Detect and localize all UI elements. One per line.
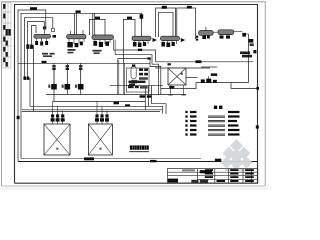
vessel A top right bbox=[199, 27, 214, 39]
left strip block m1 bbox=[6, 29, 8, 36]
legend row 1 bbox=[185, 111, 239, 113]
wire tower feed y106.3 bbox=[30, 105, 163, 107]
label on interchange c bbox=[147, 57, 150, 59]
wire long header y63 bbox=[18, 62, 150, 64]
title block right grid bars col1 bbox=[205, 169, 225, 182]
wire HX outlet right bbox=[186, 77, 198, 79]
wire train link B-valve bbox=[234, 31, 243, 33]
middle pump P2 bbox=[62, 65, 71, 89]
left strip block m2 bbox=[6, 41, 8, 46]
wire interchange c bbox=[118, 59, 161, 95]
wire pipe loop D bbox=[177, 8, 196, 39]
label on interchange a bbox=[138, 49, 142, 51]
valve on L3 end bbox=[51, 29, 54, 32]
wire pump riser x81 bbox=[80, 63, 82, 94]
legend table bbox=[185, 106, 239, 136]
labels on feed line y94.5 bbox=[140, 95, 146, 97]
text row softener bbox=[129, 81, 146, 86]
title block drawing name text bbox=[191, 180, 208, 183]
CT2 riser b bbox=[100, 106, 104, 124]
wire L1 steam header bbox=[18, 10, 46, 161]
wire interchange b bbox=[115, 55, 158, 95]
legend row 4 bbox=[185, 124, 238, 126]
left strip block r6 bbox=[3, 58, 5, 63]
fittings below pump F bbox=[250, 43, 254, 46]
wire blowdown bottom line bbox=[21, 158, 201, 160]
wire staircase S2 bbox=[148, 86, 150, 106]
left strip block r4 bbox=[3, 37, 5, 42]
legend row 6 bbox=[185, 133, 239, 135]
wire V3 drains bbox=[114, 40, 116, 55]
label on line x125 bbox=[125, 104, 130, 106]
wire pump riser x54 bbox=[53, 63, 55, 101]
valve mark on left riser bbox=[17, 116, 20, 119]
CT1 riser a bbox=[51, 101, 55, 124]
pump group left of V1 bbox=[26, 44, 29, 49]
wire line y85.7 bbox=[110, 85, 163, 87]
wire tower feed pair y111.4 bbox=[22, 110, 160, 112]
wire pipe loop C inner bbox=[159, 12, 174, 37]
wire V3 nozzle risers bbox=[93, 13, 95, 35]
skid internals bbox=[139, 69, 143, 72]
wire tower feed pair y109.8 bbox=[22, 109, 162, 111]
left strip block r5 bbox=[3, 47, 5, 52]
left strip block m4 bbox=[6, 62, 8, 67]
wire V2 nozzle risers bbox=[75, 13, 77, 34]
wire riser V1 left bbox=[33, 45, 35, 111]
CT2 riser a bbox=[95, 101, 99, 124]
pump F on drop bbox=[248, 39, 253, 43]
wire staircase S1 bbox=[144, 86, 146, 110]
vessel V3 bbox=[92, 35, 114, 47]
main pipework bbox=[18, 8, 258, 162]
small fittings x196 bbox=[196, 36, 198, 38]
title block caption bars bbox=[168, 170, 212, 182]
label on line x113 bbox=[114, 102, 120, 105]
text near V3 legs bbox=[93, 50, 102, 54]
wire right short y67 bbox=[201, 66, 217, 68]
outer border bbox=[2, 2, 266, 186]
wire interchange a bbox=[114, 50, 254, 62]
title block right grid bars col2 bbox=[230, 169, 238, 182]
inner drawing frame bbox=[15, 5, 258, 184]
misc small labels bbox=[30, 6, 256, 162]
text right column DN bbox=[240, 52, 252, 58]
cooling tower CT2 bbox=[88, 124, 112, 155]
vessel V5 bbox=[161, 36, 186, 47]
watermark logo bbox=[221, 139, 253, 171]
wire train link A-B bbox=[213, 31, 218, 33]
wire pipe loop C over V5 bbox=[156, 8, 176, 37]
frame centering mark right bbox=[256, 125, 259, 128]
title block right grid bars col3 bbox=[245, 169, 254, 182]
CT1 riser c bbox=[61, 111, 65, 124]
wire pump feed line y94.5 bbox=[46, 94, 186, 96]
cooling tower CT1 bbox=[44, 124, 70, 155]
wire right drop x248.5 bbox=[248, 34, 250, 83]
middle pump P1 bbox=[48, 65, 57, 89]
legend title bbox=[214, 106, 217, 109]
left strip block r3 bbox=[3, 25, 5, 30]
wire pipe loop mid bbox=[124, 19, 136, 63]
vessel V1 bbox=[34, 26, 51, 45]
wire pump riser x67 bbox=[66, 63, 68, 94]
wire right end stub bbox=[162, 106, 164, 113]
left strip block r2 bbox=[3, 14, 5, 19]
title block bbox=[167, 169, 257, 184]
vessel V4 bbox=[132, 36, 157, 47]
label on header y63 bbox=[42, 61, 47, 63]
salt tank T bbox=[131, 67, 136, 79]
tick where return meets frame bbox=[256, 87, 259, 90]
wire skid feed pipes bbox=[118, 59, 125, 95]
pump cluster right G bbox=[201, 73, 217, 83]
heat exchanger HX1 bbox=[168, 63, 187, 95]
text below V1 bbox=[42, 53, 55, 57]
legend row 3 bbox=[185, 120, 237, 122]
CT1 riser b bbox=[56, 106, 60, 124]
wire tower feed y101.4 bbox=[53, 100, 146, 102]
vessel V2 bbox=[67, 30, 86, 47]
wire L2 bbox=[21, 13, 142, 158]
wire L5 bbox=[32, 26, 37, 46]
pump blobs under HX1 bbox=[169, 86, 174, 89]
left strip block r1 bbox=[3, 4, 5, 9]
legend row 5 bbox=[185, 129, 239, 131]
bottom outer strip bbox=[0, 187, 268, 190]
wire right return step to frame bbox=[231, 83, 258, 89]
wire enclosure bottom line bbox=[18, 161, 258, 163]
wire HX top line bbox=[155, 67, 210, 69]
vessel B top right bbox=[218, 30, 234, 39]
CT2 riser c bbox=[105, 111, 109, 124]
left revision strip table bbox=[3, 2, 11, 68]
title block small gray text bbox=[182, 169, 195, 171]
left strip block m3 bbox=[6, 52, 8, 57]
wire left corner riser x30 bbox=[29, 78, 31, 106]
wire L3 bbox=[25, 18, 53, 77]
valve E right bbox=[242, 33, 246, 37]
legend row 2 bbox=[185, 115, 239, 117]
wire valve to drop bbox=[246, 33, 249, 35]
middle pump P3 bbox=[75, 65, 84, 89]
wire staircase S3 bbox=[152, 86, 166, 114]
valve blobs on L3 L4 ends bbox=[23, 77, 26, 80]
water treatment skid box bbox=[126, 64, 149, 92]
caption near towers bbox=[129, 145, 149, 151]
valve on L2 drop bbox=[140, 14, 144, 19]
wire right return y82.6 bbox=[161, 83, 249, 89]
text near V2 legs bbox=[68, 49, 76, 53]
left strip block w1 bbox=[8, 29, 10, 36]
wire L4 bbox=[28, 22, 45, 77]
wire pipe loop over V3 bbox=[90, 19, 106, 35]
